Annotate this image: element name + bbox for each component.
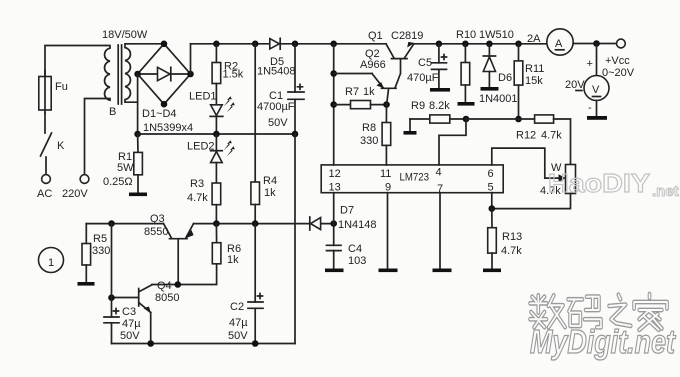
watermark character shu	[530, 295, 565, 327]
capacitor C3	[104, 224, 141, 344]
potentiometer W 4.7k	[540, 162, 576, 197]
node: R4/C2 junction	[252, 220, 259, 227]
svg-text:R12: R12	[516, 130, 536, 142]
transistor Q4 8050	[112, 280, 180, 344]
wire: Q2 emitter line	[334, 73, 372, 75]
ground below R9	[404, 131, 417, 135]
svg-text:8550: 8550	[144, 226, 168, 238]
svg-text:470µF: 470µF	[407, 72, 439, 84]
pin 13 label	[329, 182, 341, 194]
svg-text:LED2: LED2	[187, 141, 215, 153]
watermark character jia	[634, 294, 667, 330]
svg-text:9: 9	[385, 182, 391, 194]
svg-text:1N5408: 1N5408	[257, 66, 296, 78]
diode D5 (in top bus)	[257, 38, 296, 77]
svg-text:1W510: 1W510	[479, 29, 514, 41]
ground below voltmeter	[587, 116, 607, 120]
svg-text:50V: 50V	[120, 330, 140, 342]
svg-text:1N4001: 1N4001	[479, 93, 518, 105]
ground below R5	[78, 282, 95, 286]
watermark character zhi	[609, 295, 631, 326]
svg-text:D7: D7	[340, 205, 354, 217]
node: bus2 C1 tap	[292, 131, 299, 138]
svg-text:.net: .net	[652, 183, 679, 200]
label D1~D4 1N5399x4	[142, 108, 193, 134]
svg-text:103: 103	[348, 255, 366, 267]
resistor R9	[410, 100, 466, 131]
svg-text:0~20V: 0~20V	[602, 67, 635, 79]
bridge inner diode	[158, 67, 171, 80]
svg-text:1N5399x4: 1N5399x4	[143, 122, 193, 134]
transformer T primary	[105, 46, 110, 101]
IC U1 LM723	[321, 165, 503, 193]
svg-text:1: 1	[48, 257, 54, 269]
wire: pin5 column	[491, 193, 493, 209]
capacitor C1	[257, 44, 304, 134]
capacitor C4	[327, 224, 367, 269]
svg-text:12: 12	[329, 168, 341, 180]
switch K	[41, 113, 66, 174]
svg-text:13: 13	[329, 182, 341, 194]
node: pin13/C4/D7 junction	[330, 220, 337, 227]
svg-text:R5: R5	[93, 233, 107, 245]
node: bus2 left	[134, 131, 141, 138]
svg-text:0.25Ω: 0.25Ω	[103, 176, 133, 188]
resistor R7	[334, 86, 387, 109]
svg-text:15k: 15k	[525, 75, 543, 87]
pin 5 label	[488, 182, 494, 194]
node: bridge left vertex	[134, 71, 141, 78]
svg-text:+: +	[587, 58, 593, 70]
terminal +Vcc	[602, 39, 635, 79]
svg-text:+Vcc: +Vcc	[605, 55, 630, 67]
diode D7 1N4148	[310, 205, 377, 232]
ground below R1	[129, 193, 147, 197]
ground below pin7	[433, 269, 452, 273]
resistor R6	[152, 224, 241, 285]
svg-text:V: V	[592, 84, 600, 96]
svg-text:R11: R11	[525, 63, 544, 75]
terminal AC right	[80, 99, 107, 184]
pin 7 label	[437, 183, 443, 195]
node: R3 bottom junction	[213, 220, 220, 227]
transistor Q3 8550	[144, 213, 194, 285]
node: Q4 emitter on bottom bus	[147, 340, 154, 347]
diode D6 1N4001	[479, 44, 518, 105]
svg-text:MyDigit.net: MyDigit.net	[530, 323, 677, 360]
wire: R4 column from top bus	[254, 44, 256, 182]
terminal AC left	[42, 175, 51, 184]
node: top bus C1 tap	[292, 41, 299, 48]
ground below C4	[325, 269, 344, 273]
wire: secondary top to bridge	[128, 43, 164, 45]
svg-text:1N4148: 1N4148	[338, 219, 377, 231]
svg-text:2A: 2A	[527, 33, 541, 45]
svg-text:220V: 220V	[62, 188, 88, 200]
svg-text:Fu: Fu	[55, 81, 68, 93]
wire bus2	[138, 133, 295, 135]
svg-text:47µ: 47µ	[122, 318, 141, 330]
wire: pin13 column	[333, 193, 335, 224]
ground below pin9	[379, 269, 398, 273]
pin 9 label	[385, 182, 391, 194]
svg-text:11: 11	[380, 168, 391, 180]
svg-text:R4: R4	[263, 175, 277, 187]
pin 6 label	[488, 168, 494, 180]
circled number 1	[39, 248, 64, 273]
bridge rectifier D1~D4 diamond	[138, 44, 191, 104]
resistor R8	[360, 105, 391, 165]
transistor Q2 A966	[360, 48, 396, 104]
node: pin5/R13 junction	[489, 205, 496, 212]
LED2	[187, 134, 235, 183]
svg-text:B: B	[109, 106, 116, 118]
wire: top bus segment	[191, 43, 387, 45]
svg-text:4.7k: 4.7k	[501, 245, 522, 257]
svg-text:8050: 8050	[155, 292, 179, 304]
wire: ammeter to +Vcc terminal	[573, 43, 616, 45]
node: top bus pin12 tap	[330, 41, 337, 48]
svg-text:C4: C4	[348, 243, 362, 255]
svg-text:LM723: LM723	[400, 172, 430, 184]
svg-text:20V: 20V	[565, 79, 585, 91]
capacitor C2	[228, 224, 263, 344]
wire: top bus right of Q1	[414, 43, 548, 45]
svg-text:4700µF: 4700µF	[257, 101, 295, 113]
node: top bus D6 tap	[486, 41, 493, 48]
svg-text:C3: C3	[122, 306, 136, 318]
svg-text:1.5k: 1.5k	[223, 69, 244, 81]
svg-text:4.7k: 4.7k	[187, 192, 208, 204]
node: C2 on bottom bus	[252, 340, 259, 347]
transformer core	[118, 45, 121, 104]
wire: pin4 L-path	[439, 119, 466, 165]
LED1	[189, 91, 235, 135]
transistor Q1 C2819	[368, 30, 423, 88]
svg-text:18V/50W: 18V/50W	[102, 29, 148, 41]
svg-text:1k: 1k	[264, 187, 276, 199]
node: top bus C5 tap	[436, 41, 443, 48]
wire: bottom bus	[112, 343, 296, 345]
svg-text:R13: R13	[502, 231, 522, 243]
node: top bus R4 tap	[252, 41, 259, 48]
wire: bridge right vertex riser to top bus	[190, 44, 192, 74]
resistor R4	[251, 175, 277, 224]
svg-text:HaoDIY: HaoDIY	[548, 168, 650, 198]
svg-text:330: 330	[92, 245, 110, 257]
wire: R5 to Q3 collector run	[86, 223, 163, 225]
svg-text:50V: 50V	[268, 117, 288, 129]
wire: pin12 column	[333, 44, 335, 165]
svg-text:4: 4	[436, 167, 442, 179]
ground below C5	[430, 88, 450, 92]
svg-text:R7: R7	[345, 86, 359, 98]
svg-text:330: 330	[360, 135, 378, 147]
node: C3 column tap	[108, 220, 115, 227]
node: voltmeter tap	[593, 40, 600, 47]
pin 11 label	[380, 168, 391, 180]
wire: pin7 column	[439, 193, 441, 269]
ground below R10	[458, 102, 475, 106]
ammeter A	[547, 29, 573, 55]
svg-text:C5: C5	[418, 57, 432, 69]
resistor R10	[456, 29, 514, 102]
fuse Fu	[39, 70, 68, 113]
wire: Q3 emitter to R3 junction	[194, 223, 334, 225]
svg-text:5W: 5W	[117, 162, 134, 174]
watermark HaoDIY.net	[548, 168, 679, 200]
svg-text:A966: A966	[360, 59, 386, 71]
ground below R13	[483, 269, 501, 273]
svg-text:Q3: Q3	[150, 213, 165, 225]
svg-text:C2819: C2819	[391, 30, 423, 42]
node: Q4 base / C3 junction	[108, 294, 115, 301]
svg-text:AC: AC	[37, 188, 52, 200]
node: bridge right vertex	[187, 71, 194, 78]
wire: pin6 to wiper	[492, 148, 562, 178]
wire: pot bottom to pin5 junction	[492, 194, 571, 209]
node: bus2 LED tap	[213, 131, 220, 138]
svg-text:6: 6	[488, 168, 494, 180]
node: Q2 collector / R8 junction	[383, 101, 390, 108]
svg-text:K: K	[57, 140, 65, 152]
svg-text:C2: C2	[230, 301, 244, 313]
label B	[109, 106, 116, 118]
wire: C1 column down to bottom bus	[294, 134, 296, 344]
resistor R13	[488, 209, 523, 269]
node: bridge bottom vertex	[161, 101, 168, 108]
node: R9/R12 junction	[463, 116, 470, 123]
svg-text:47µ: 47µ	[229, 317, 248, 329]
resistor R2	[212, 44, 244, 105]
svg-text:50V: 50V	[228, 330, 248, 342]
resistor R3	[187, 178, 221, 224]
label AC 220V	[37, 188, 88, 200]
voltmeter V	[565, 44, 609, 117]
wire: primary top lead to fuse	[45, 46, 106, 77]
svg-text:4.7k: 4.7k	[541, 130, 562, 142]
pin 4 label	[436, 167, 442, 179]
svg-text:1k: 1k	[227, 254, 239, 266]
node: R7 left tap	[330, 101, 337, 108]
svg-text:R9: R9	[411, 100, 425, 112]
node: top bus R10 tap	[462, 41, 469, 48]
resistor R11	[514, 44, 544, 119]
wire: junction to R12	[466, 118, 535, 120]
node: Q3 base / Q4 collector junction	[175, 281, 182, 288]
svg-text:R8: R8	[362, 122, 376, 134]
node: Q2 emitter tap	[330, 70, 337, 77]
svg-text:Q1: Q1	[368, 30, 383, 42]
ground below D6	[481, 87, 499, 91]
wire: bridge left vertex down to bus2	[137, 74, 139, 134]
svg-text:8.2k: 8.2k	[429, 100, 450, 112]
watermark MyDigit.net	[530, 323, 677, 360]
label 18V/50W	[102, 29, 148, 41]
node: R11 bottom junction	[515, 116, 522, 123]
resistor R12	[516, 115, 571, 165]
label 2A	[527, 33, 541, 45]
node: top bus R11 tap	[515, 41, 522, 48]
wire: pin9 column	[387, 193, 389, 269]
svg-text:D1~D4: D1~D4	[142, 108, 177, 120]
svg-text:5: 5	[488, 182, 494, 194]
svg-text:R10: R10	[456, 29, 476, 41]
node: top bus R2 tap	[213, 41, 220, 48]
pin 12 label	[329, 168, 341, 180]
capacitor C5	[407, 44, 447, 88]
svg-text:D6: D6	[498, 72, 512, 84]
transformer secondary	[125, 44, 138, 102]
node: bridge top vertex	[161, 41, 168, 48]
svg-text:LED1: LED1	[189, 91, 217, 103]
resistor R1	[103, 134, 142, 193]
svg-text:A: A	[555, 38, 563, 50]
resistor R5	[82, 224, 110, 282]
svg-text:-: -	[588, 102, 592, 114]
svg-text:R3: R3	[190, 178, 204, 190]
svg-text:1k: 1k	[363, 86, 375, 98]
svg-text:Q4: Q4	[157, 280, 172, 292]
watermark character ma	[568, 297, 601, 328]
